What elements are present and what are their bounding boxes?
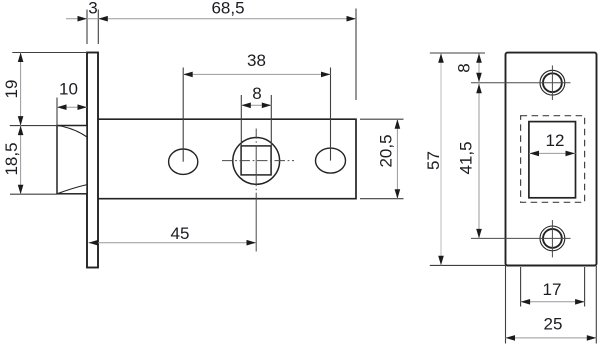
svg-text:8: 8 (454, 63, 473, 72)
spindle square hole (241, 146, 271, 175)
dimension line 8 (square) (241, 103, 271, 109)
svg-text:68,5: 68,5 (211, 0, 244, 17)
svg-text:38: 38 (247, 51, 266, 70)
dimension text 68,5 (211, 0, 244, 17)
latch hole rectangle (12 wide) (529, 122, 576, 198)
dimension text 38 (247, 51, 266, 70)
svg-text:41,5: 41,5 (457, 141, 476, 174)
dimension 10 extension line (56, 98, 58, 127)
spindle circle (233, 138, 280, 185)
dimension text 8 (right view) (454, 63, 473, 72)
dimension text 10 (59, 80, 78, 99)
dimension 8 extension lines (square) (241, 95, 271, 146)
dimension text 20,5 (377, 134, 396, 167)
dimension line 19 (18, 53, 24, 126)
dimension line 45 (89, 240, 257, 246)
dimension 68,5 extension line (355, 9, 357, 101)
dimension text 17 (543, 280, 562, 299)
top screw hole (540, 70, 565, 95)
dimension line 12 (529, 151, 576, 157)
svg-text:45: 45 (171, 224, 190, 243)
dimension line 25 (506, 335, 597, 341)
top screw hole crosshair (471, 65, 571, 100)
svg-text:18,5: 18,5 (2, 142, 21, 175)
bottom screw hole (540, 226, 565, 251)
svg-text:12: 12 (546, 131, 565, 150)
right oval hole (316, 148, 346, 173)
vertical centerline / extension to 45 dim (255, 129, 257, 252)
dimension text 8 (square) (252, 84, 261, 103)
faceplate (87, 53, 98, 268)
dimension line 8 (right view) (476, 53, 482, 82)
dimension text 3 (88, 0, 97, 18)
dimension text 12 (546, 131, 565, 150)
strike plate outline (506, 53, 597, 266)
left oval hole (169, 149, 198, 174)
dimension 20,5 extension lines (360, 119, 404, 199)
latch box dashed outline (17 wide) (521, 116, 585, 203)
top dimension line 3 / 68,5 (66, 16, 356, 22)
svg-text:17: 17 (543, 280, 562, 299)
dimension 38 extension lines (183, 68, 330, 162)
dimension line 18,5 (18, 126, 24, 195)
svg-text:8: 8 (252, 84, 261, 103)
dimension line 20,5 (395, 119, 401, 199)
plate top extension line (430, 52, 485, 54)
dimension line 41,5 (476, 82, 482, 238)
dimension text 19 (2, 80, 21, 99)
svg-text:20,5: 20,5 (377, 134, 396, 167)
dimension text 45 (171, 224, 190, 243)
latch bolt (57, 126, 87, 194)
plate bottom extension line (430, 264, 506, 266)
svg-text:25: 25 (544, 315, 563, 334)
latch body (98, 119, 356, 199)
dimension 3 extension lines (87, 10, 98, 45)
dimension text 18,5 (2, 142, 21, 175)
dimension text 25 (544, 315, 563, 334)
dimension line 38 (183, 72, 330, 78)
dimension text 57 (424, 151, 443, 170)
svg-text:3: 3 (88, 0, 97, 18)
dimension 25 extension lines (506, 266, 597, 344)
dimension 17 extension lines (521, 267, 585, 307)
dimension text 41,5 (457, 141, 476, 174)
bottom screw hole crosshair (471, 220, 571, 257)
dimension line 10 (57, 104, 87, 110)
svg-text:19: 19 (2, 80, 21, 99)
dimension line 57 (438, 53, 444, 265)
dimension line 17 (521, 299, 585, 305)
svg-text:10: 10 (59, 80, 78, 99)
dimension 19 / 18,5 extension lines (10, 53, 87, 195)
svg-text:57: 57 (424, 151, 443, 170)
horizontal centerline (222, 160, 294, 162)
